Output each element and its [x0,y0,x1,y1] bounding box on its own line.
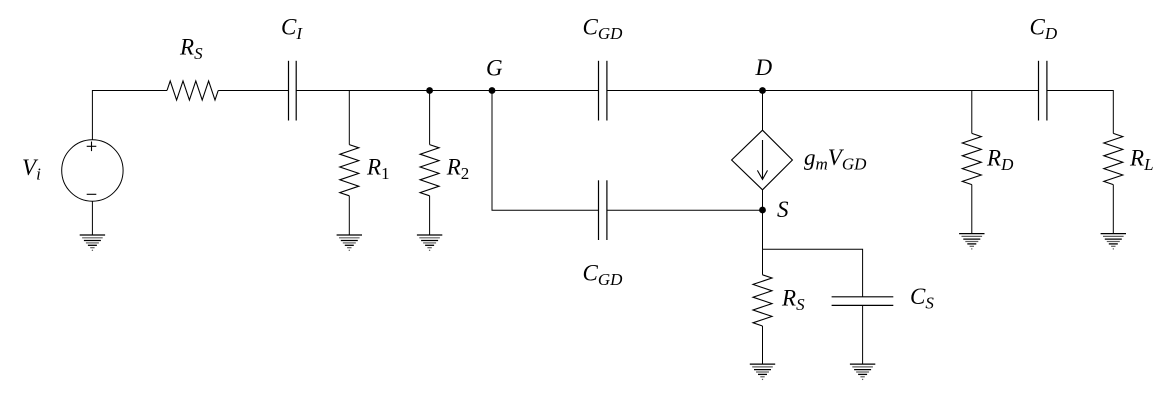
dependent current source gmVGD (diamond with down arrow) [732,130,793,190]
svg-text:RS: RS [179,35,203,64]
ground (below R1) [337,235,362,251]
svg-text:gmVGD: gmVGD [804,145,867,174]
svg-text:D: D [755,55,773,80]
wire D to CD (through RD tee) [763,90,1039,92]
node S [759,207,766,214]
svg-text:S: S [777,197,789,222]
capacitor CS [832,297,894,306]
capacitor CD [1039,61,1047,121]
svg-text:CGD: CGD [583,261,624,290]
capacitor CI [289,61,297,121]
ground (below R2) [417,235,442,251]
svg-text:CI: CI [281,14,303,43]
svg-text:G: G [486,56,503,81]
svg-text:CD: CD [1030,14,1058,43]
svg-text:RD: RD [986,146,1014,175]
wire CGD top to node D [607,90,763,92]
ground (below RL) [1101,234,1126,250]
wire RS to CI [218,90,288,92]
node (junction dot at R2) [426,87,433,94]
wire Vi bottom to ground [91,201,93,235]
ground (below CS) [850,364,875,380]
wire junction to CS branch [763,249,863,296]
node D [759,87,766,94]
svg-text:RL: RL [1129,146,1154,175]
wire CI to CGD top (through R1 tee, R2 node, G node) [296,90,598,92]
node G [489,87,496,94]
wire D to dependent source [762,91,764,131]
ground (below RD) [959,234,984,250]
resistor R1 [340,91,359,236]
svg-text:CGD: CGD [583,14,624,43]
resistor RS (input) [167,81,218,100]
wire G down to lower branch [492,91,599,211]
wire dependent source to node S [762,190,764,210]
capacitor CGD (bottom) [599,180,607,240]
capacitor CGD (top) [599,61,607,121]
resistor R2 [420,91,439,236]
wire CD to RL [1047,91,1113,134]
svg-text:R1: R1 [366,155,390,184]
resistor RL [1104,133,1123,233]
ground (below Vi) [80,235,105,251]
svg-text:R2: R2 [446,155,470,184]
wire Vi top to main rail [92,91,167,140]
svg-text:CS: CS [910,284,934,313]
svg-text:Vi: Vi [22,155,41,184]
wire CS to ground [862,305,864,364]
resistor RD [962,91,981,234]
voltage source Vi [62,140,123,201]
resistor RS (source degeneration) [753,249,772,364]
wire CGD bottom to node S [607,209,763,211]
wire S down to RS/CS junction [762,210,764,249]
ground (below RS) [750,364,775,380]
svg-text:RS: RS [781,286,805,315]
